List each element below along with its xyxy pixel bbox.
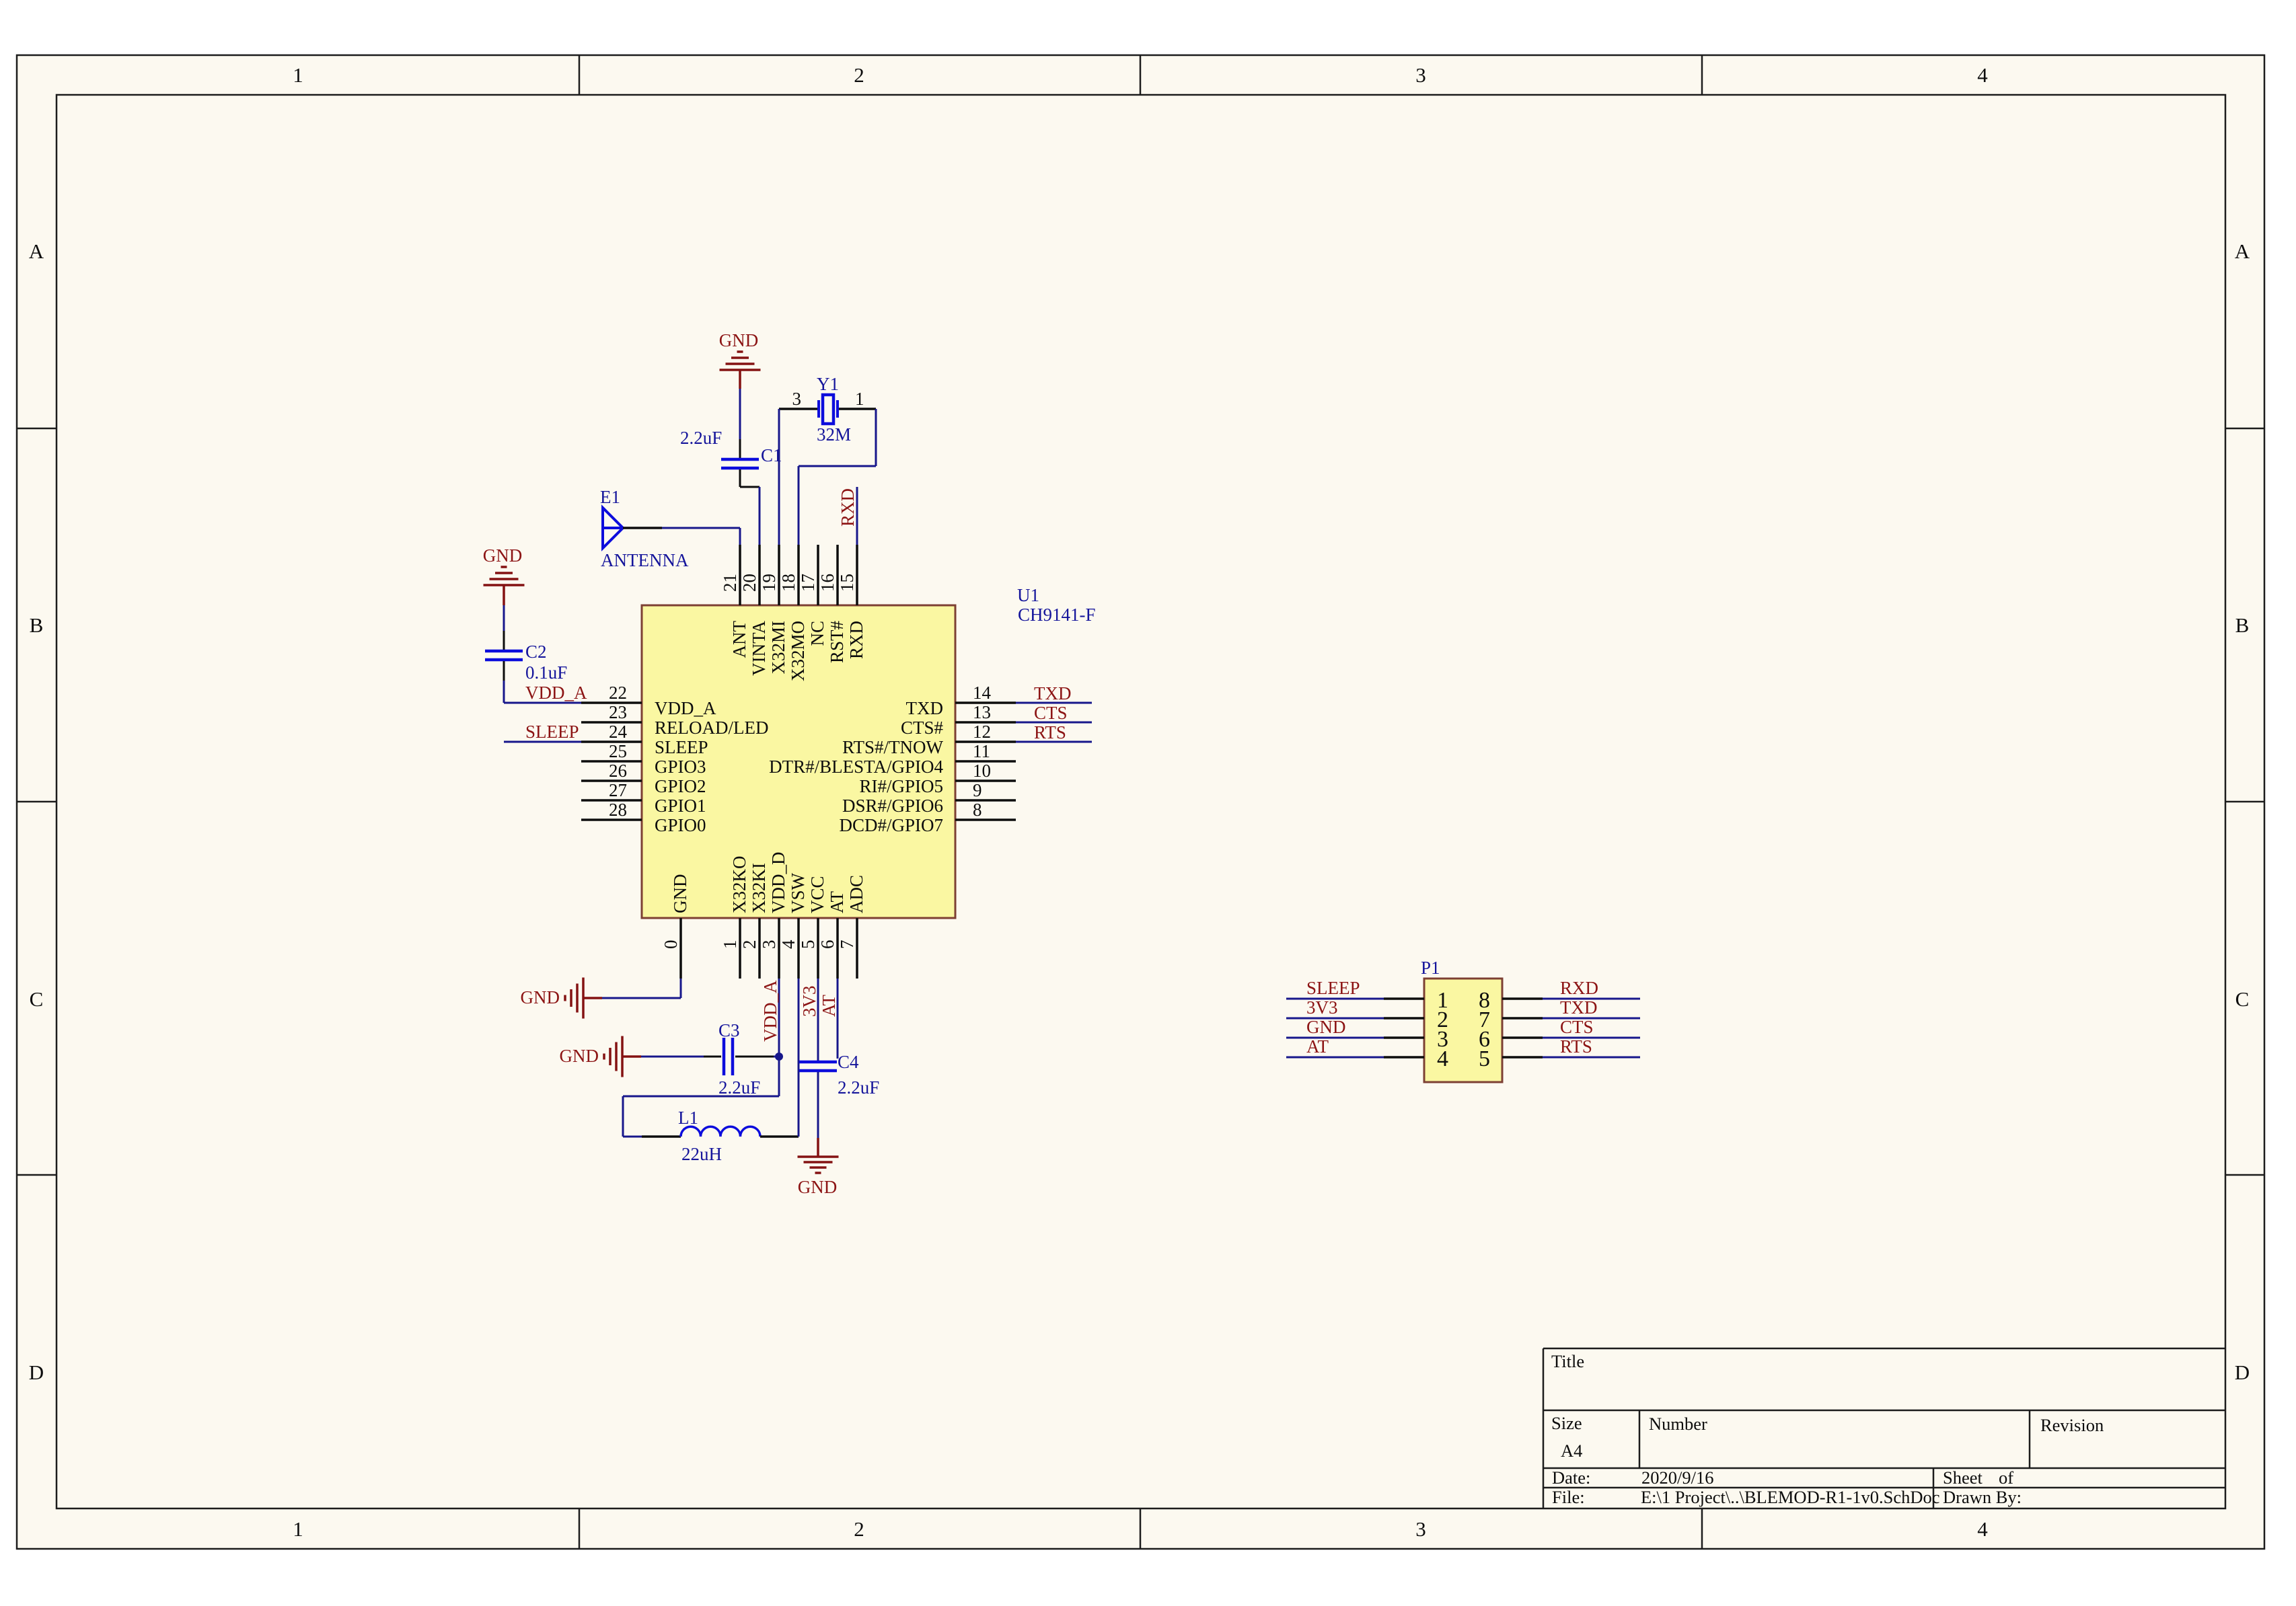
- svg-text:TXD: TXD: [906, 698, 944, 718]
- svg-text:GPIO0: GPIO0: [655, 815, 706, 835]
- svg-text:17: 17: [798, 574, 818, 592]
- svg-text:2: 2: [854, 1517, 864, 1541]
- svg-text:0: 0: [661, 940, 681, 950]
- svg-text:P1: P1: [1421, 958, 1440, 978]
- svg-text:21: 21: [720, 574, 740, 592]
- svg-text:28: 28: [609, 800, 627, 820]
- svg-text:27: 27: [609, 780, 627, 800]
- svg-text:TXD: TXD: [1560, 997, 1598, 1018]
- svg-text:CTS#: CTS#: [901, 718, 944, 738]
- svg-text:20: 20: [739, 574, 760, 592]
- svg-text:D: D: [29, 1361, 44, 1384]
- svg-text:CTS: CTS: [1560, 1017, 1594, 1037]
- svg-text:1: 1: [720, 940, 740, 950]
- svg-text:C: C: [2235, 987, 2250, 1011]
- svg-text:VDD_A: VDD_A: [760, 980, 780, 1042]
- svg-text:4: 4: [778, 940, 799, 949]
- svg-text:22uH: 22uH: [681, 1144, 722, 1164]
- svg-text:B: B: [2235, 613, 2250, 637]
- svg-text:RTS#/TNOW: RTS#/TNOW: [842, 737, 943, 757]
- svg-text:X32MO: X32MO: [788, 621, 808, 681]
- svg-text:CH9141-F: CH9141-F: [1018, 605, 1096, 625]
- svg-text:3V3: 3V3: [799, 986, 819, 1018]
- svg-text:AT: AT: [827, 890, 847, 913]
- svg-text:NC: NC: [807, 621, 827, 646]
- svg-text:VDD_D: VDD_D: [768, 852, 788, 914]
- svg-text:2: 2: [854, 63, 864, 87]
- svg-text:X32KO: X32KO: [729, 856, 749, 914]
- svg-text:SLEEP: SLEEP: [655, 737, 708, 757]
- svg-text:VSW: VSW: [788, 872, 808, 913]
- svg-text:Number: Number: [1649, 1414, 1707, 1434]
- svg-text:2020/9/16: 2020/9/16: [1641, 1467, 1713, 1488]
- svg-text:7: 7: [837, 940, 857, 950]
- svg-text:RXD: RXD: [846, 621, 866, 659]
- svg-text:B: B: [30, 613, 44, 637]
- svg-text:L1: L1: [678, 1108, 698, 1128]
- svg-text:RI#/GPIO5: RI#/GPIO5: [859, 776, 943, 796]
- svg-text:6: 6: [817, 940, 838, 950]
- svg-text:2.2uF: 2.2uF: [718, 1077, 760, 1098]
- svg-text:3V3: 3V3: [1306, 997, 1338, 1018]
- svg-text:GND: GND: [521, 987, 560, 1007]
- svg-text:VCC: VCC: [807, 876, 827, 913]
- svg-text:GND: GND: [483, 545, 523, 566]
- svg-text:SLEEP: SLEEP: [525, 722, 579, 742]
- svg-text:13: 13: [973, 702, 991, 722]
- svg-text:5: 5: [798, 940, 818, 950]
- svg-text:DTR#/BLESTA/GPIO4: DTR#/BLESTA/GPIO4: [769, 757, 943, 777]
- svg-text:GND: GND: [719, 330, 759, 350]
- svg-text:25: 25: [609, 741, 627, 761]
- svg-text:Date:: Date:: [1552, 1467, 1590, 1488]
- svg-text:GPIO2: GPIO2: [655, 776, 706, 796]
- svg-text:1: 1: [855, 389, 864, 409]
- svg-text:File:: File:: [1552, 1487, 1585, 1507]
- svg-text:ADC: ADC: [846, 875, 866, 913]
- svg-text:3: 3: [759, 940, 779, 950]
- svg-text:C3: C3: [718, 1020, 740, 1040]
- svg-text:RST#: RST#: [827, 621, 847, 664]
- svg-text:Revision: Revision: [2040, 1415, 2104, 1435]
- svg-text:GND: GND: [798, 1177, 838, 1197]
- svg-text:RELOAD/LED: RELOAD/LED: [655, 718, 768, 738]
- svg-text:GND: GND: [1306, 1017, 1346, 1037]
- svg-text:RXD: RXD: [838, 488, 858, 527]
- svg-text:12: 12: [973, 722, 991, 742]
- svg-text:C4: C4: [838, 1052, 859, 1072]
- svg-text:4: 4: [1437, 1046, 1448, 1071]
- svg-text:1: 1: [293, 1517, 303, 1541]
- svg-text:X32KI: X32KI: [749, 863, 769, 913]
- svg-text:Size: Size: [1551, 1413, 1582, 1433]
- svg-text:TXD: TXD: [1034, 683, 1072, 703]
- svg-text:E:\1 Project\..\BLEMOD-R1-1v0.: E:\1 Project\..\BLEMOD-R1-1v0.SchDoc: [1641, 1487, 1940, 1507]
- svg-text:19: 19: [759, 574, 779, 592]
- svg-text:14: 14: [973, 683, 992, 703]
- svg-text:VDD_A: VDD_A: [655, 698, 716, 718]
- svg-text:32M: 32M: [817, 424, 851, 445]
- svg-text:RTS: RTS: [1034, 722, 1066, 742]
- svg-text:CTS: CTS: [1034, 703, 1068, 723]
- svg-text:2: 2: [739, 940, 760, 950]
- svg-text:Sheet: Sheet: [1943, 1467, 1983, 1488]
- svg-text:23: 23: [609, 702, 627, 722]
- svg-text:D: D: [2235, 1361, 2250, 1384]
- svg-text:5: 5: [1479, 1046, 1490, 1071]
- svg-text:of: of: [1999, 1467, 2013, 1488]
- svg-text:22: 22: [609, 683, 627, 703]
- svg-text:9: 9: [973, 780, 982, 800]
- svg-text:AT: AT: [1306, 1036, 1329, 1057]
- svg-text:Y1: Y1: [817, 374, 839, 394]
- svg-text:2.2uF: 2.2uF: [680, 428, 722, 448]
- svg-text:3: 3: [1415, 1517, 1426, 1541]
- svg-text:VDD_A: VDD_A: [525, 683, 587, 703]
- svg-text:GND: GND: [560, 1046, 599, 1066]
- svg-text:26: 26: [609, 761, 627, 781]
- svg-text:GPIO1: GPIO1: [655, 796, 706, 816]
- svg-text:RXD: RXD: [1560, 978, 1598, 998]
- svg-text:RTS: RTS: [1560, 1036, 1592, 1057]
- svg-text:C: C: [30, 987, 44, 1011]
- svg-text:Title: Title: [1551, 1351, 1584, 1371]
- svg-text:SLEEP: SLEEP: [1306, 978, 1360, 998]
- svg-text:0.1uF: 0.1uF: [525, 662, 567, 683]
- svg-text:A4: A4: [1561, 1441, 1582, 1461]
- svg-text:ANTENNA: ANTENNA: [601, 550, 689, 570]
- svg-text:GND: GND: [670, 874, 690, 914]
- svg-text:3: 3: [792, 389, 802, 409]
- svg-text:A: A: [2235, 239, 2250, 263]
- svg-text:X32MI: X32MI: [768, 621, 788, 675]
- svg-text:GPIO3: GPIO3: [655, 757, 706, 777]
- svg-text:2.2uF: 2.2uF: [838, 1077, 879, 1098]
- svg-text:E1: E1: [600, 487, 620, 507]
- svg-text:A: A: [29, 239, 44, 263]
- svg-text:VINTA: VINTA: [749, 621, 769, 676]
- svg-text:DCD#/GPIO7: DCD#/GPIO7: [839, 815, 943, 835]
- svg-text:11: 11: [973, 741, 990, 761]
- svg-text:3: 3: [1415, 63, 1426, 87]
- svg-text:10: 10: [973, 761, 991, 781]
- svg-text:ANT: ANT: [729, 621, 749, 658]
- svg-text:U1: U1: [1017, 585, 1039, 605]
- svg-text:AT: AT: [819, 994, 839, 1017]
- svg-text:1: 1: [293, 63, 303, 87]
- svg-text:C2: C2: [525, 642, 547, 662]
- svg-text:16: 16: [817, 574, 838, 592]
- svg-text:Drawn By:: Drawn By:: [1943, 1487, 2022, 1507]
- svg-text:DSR#/GPIO6: DSR#/GPIO6: [842, 796, 943, 816]
- svg-text:24: 24: [609, 722, 628, 742]
- svg-text:8: 8: [973, 800, 982, 820]
- svg-text:15: 15: [837, 574, 857, 592]
- svg-text:4: 4: [1977, 1517, 1988, 1541]
- svg-text:18: 18: [778, 574, 799, 592]
- svg-text:4: 4: [1977, 63, 1988, 87]
